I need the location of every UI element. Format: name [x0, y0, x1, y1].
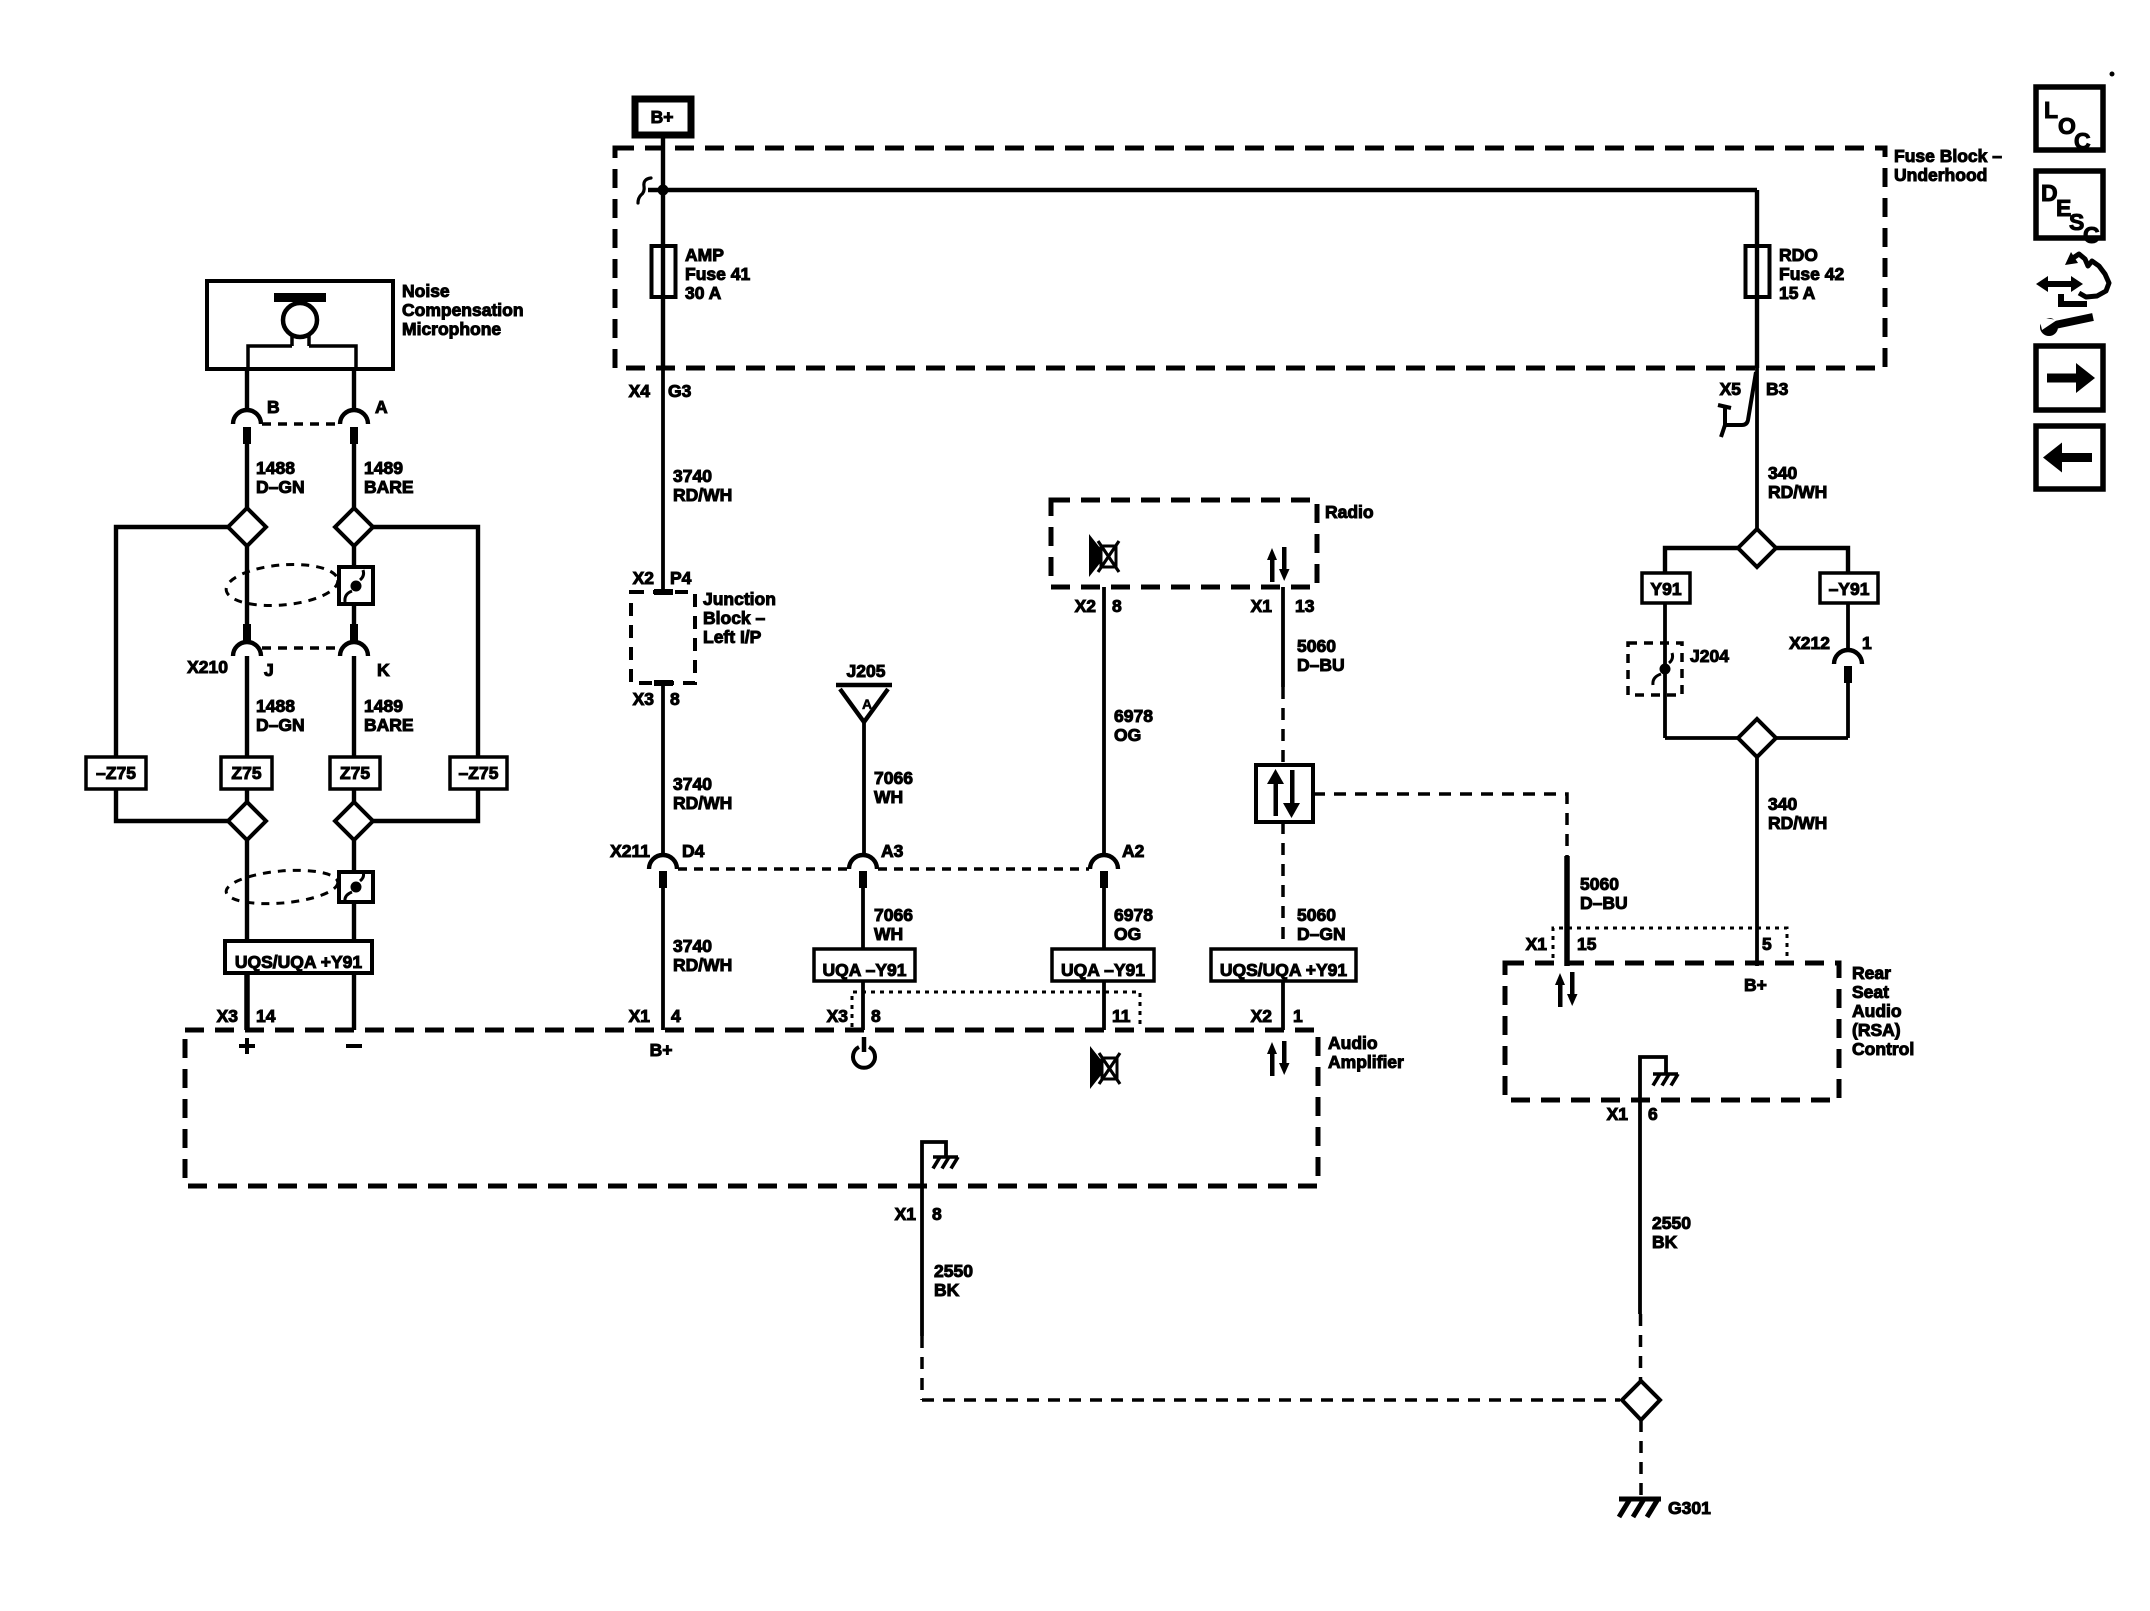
amp internal ground wire	[922, 1142, 946, 1186]
svg-text:Compensation: Compensation	[402, 300, 524, 320]
wire into amplifier pin 11	[1102, 981, 1106, 1030]
wire 7066 WH lower segment	[861, 887, 865, 949]
svg-text:1489: 1489	[364, 458, 403, 478]
option box UQS/UQA +Y91 (mic)	[225, 941, 372, 973]
splice diamond left lower	[228, 802, 266, 840]
svg-text:X1: X1	[1251, 596, 1273, 616]
svg-text:Junction: Junction	[703, 589, 776, 609]
A3 connector arc	[849, 855, 877, 869]
svg-text:RD/WH: RD/WH	[673, 485, 732, 505]
svg-text:Fuse Block –: Fuse Block –	[1894, 146, 2002, 166]
shield drain splice box upper	[339, 567, 373, 604]
twisted shield ellipse lower	[225, 866, 339, 908]
wire 5060 D-BU dashed segment	[1281, 687, 1285, 765]
amp data arrows pin icon	[1267, 1041, 1290, 1076]
svg-text:Audio: Audio	[1328, 1033, 1378, 1053]
svg-text:C: C	[2083, 222, 2100, 248]
svg-text:8: 8	[932, 1204, 942, 1224]
wire 2550 BK right dashed	[1639, 1314, 1643, 1381]
option box Y91	[1642, 573, 1690, 603]
svg-text:X212: X212	[1789, 633, 1830, 653]
ground splice diamond	[1622, 1381, 1660, 1420]
G301 ground symbol	[1619, 1499, 1661, 1517]
J204 splice dot	[1660, 664, 1671, 675]
dashed data link to RSA control	[1313, 794, 1567, 858]
svg-text:X3: X3	[633, 689, 655, 709]
wire Y91 branch down	[1663, 603, 1667, 738]
svg-text:RD/WH: RD/WH	[673, 955, 732, 975]
svg-text:K: K	[377, 660, 390, 680]
svg-text:7066: 7066	[874, 905, 913, 925]
svg-text:BK: BK	[1652, 1232, 1678, 1252]
wire 1488 D-GN lower	[245, 656, 249, 757]
wire into amplifier minus pin	[352, 973, 356, 1030]
amp internal ground symbol	[933, 1157, 958, 1169]
svg-text:1489: 1489	[364, 696, 403, 716]
A2 connector arc	[1090, 855, 1118, 869]
wire 340 RD/WH lower	[1755, 757, 1759, 963]
splice diamond right upper	[335, 508, 373, 546]
svg-text:D–GN: D–GN	[1297, 924, 1346, 944]
svg-text:–Z75: –Z75	[96, 763, 136, 783]
svg-text:3740: 3740	[673, 774, 712, 794]
svg-text:J204: J204	[1690, 646, 1729, 666]
terminal tick B	[243, 427, 251, 444]
svg-text:Microphone: Microphone	[402, 319, 501, 339]
back button	[2036, 426, 2103, 489]
wire 1488 to UQS box	[245, 840, 249, 941]
shield drain splice box lower	[339, 872, 373, 902]
svg-text:P4: P4	[670, 568, 692, 588]
svg-text:Seat: Seat	[1852, 982, 1889, 1002]
vehicle outline curved arrow	[2073, 254, 2109, 297]
svg-text:RD/WH: RD/WH	[1768, 482, 1827, 502]
svg-text:RD/WH: RD/WH	[673, 793, 732, 813]
svg-text:Fuse 42: Fuse 42	[1779, 264, 1844, 284]
fuse AMP Fuse 41	[652, 246, 676, 297]
terminal tick J	[243, 624, 251, 641]
svg-text:6978: 6978	[1114, 905, 1153, 925]
svg-text:L: L	[2044, 97, 2058, 123]
wires below option boxes	[116, 789, 478, 821]
svg-text:Fuse 41: Fuse 41	[685, 264, 750, 284]
svg-text:X2: X2	[1251, 1006, 1273, 1026]
wire 1489 BARE upper	[352, 443, 356, 508]
wire 1489 BARE lower	[352, 656, 356, 757]
junction block top terminal tick	[654, 589, 673, 595]
svg-text:B+: B+	[650, 1040, 673, 1060]
svg-text:340: 340	[1768, 463, 1797, 483]
svg-text:15 A: 15 A	[1779, 283, 1816, 303]
svg-text:2550: 2550	[1652, 1213, 1691, 1233]
svg-text:14: 14	[256, 1006, 276, 1026]
RSA internal ground wire	[1640, 1057, 1666, 1100]
svg-text:A3: A3	[881, 841, 904, 861]
svg-text:Z75: Z75	[231, 763, 261, 783]
svg-text:UQA –Y91: UQA –Y91	[823, 960, 907, 980]
splice diamond Y91 bottom	[1738, 719, 1776, 757]
svg-text:A: A	[862, 696, 872, 712]
svg-text:A2: A2	[1122, 841, 1145, 861]
wire -Y91 branch down	[1846, 603, 1850, 651]
svg-text:UQS/UQA +Y91: UQS/UQA +Y91	[235, 952, 363, 972]
X211 terminal tick	[659, 871, 667, 888]
svg-text:1488: 1488	[256, 696, 295, 716]
next button	[2036, 346, 2103, 410]
svg-text:1: 1	[1862, 633, 1872, 653]
radio muted speaker icon	[1089, 534, 1119, 577]
svg-text:3740: 3740	[673, 936, 712, 956]
option box UQA -Y91 (left)	[814, 949, 915, 981]
inline connector dashed link A3 to A2	[878, 867, 1089, 871]
option box -Z75 far right	[450, 757, 507, 789]
svg-text:UQA –Y91: UQA –Y91	[1061, 960, 1145, 980]
wire 2550 BK left solid	[920, 1186, 924, 1336]
wire into amplifier pin 8	[861, 981, 865, 1030]
wire 3740 RD/WH mid segment	[661, 683, 665, 856]
antenna lead wire 7066 WH	[862, 721, 866, 856]
svg-text:C: C	[2074, 128, 2091, 154]
audio amplifier dashed box	[185, 1030, 1318, 1186]
svg-text:8: 8	[670, 689, 680, 709]
svg-text:AMP: AMP	[685, 245, 724, 265]
splice hook terminal at bus left end	[638, 178, 651, 203]
svg-text:Rear: Rear	[1852, 963, 1891, 983]
svg-text:11: 11	[1112, 1006, 1131, 1026]
svg-text:30 A: 30 A	[685, 283, 722, 303]
svg-text:Audio: Audio	[1852, 1001, 1902, 1021]
svg-text:5: 5	[1762, 934, 1772, 954]
svg-text:OG: OG	[1114, 924, 1141, 944]
svg-text:X3: X3	[827, 1006, 849, 1026]
X5 B3 pass-through connector clip	[1718, 372, 1756, 437]
wire 6978 OG upper segment	[1102, 587, 1106, 856]
wire 6978 OG lower segment	[1102, 887, 1106, 949]
svg-text:J: J	[264, 660, 274, 680]
wire 2550 BK left dashed	[922, 1336, 1620, 1400]
X3 connector dotted outline	[852, 992, 1140, 1027]
svg-text:4: 4	[671, 1006, 681, 1026]
serial data link connector box	[1256, 765, 1313, 822]
shield branch wires outer	[116, 527, 478, 757]
svg-text:G3: G3	[668, 381, 692, 401]
svg-text:WH: WH	[874, 924, 903, 944]
svg-text:1: 1	[1293, 1006, 1303, 1026]
amp power-on pin symbol	[853, 1047, 875, 1068]
RSA data arrows pin icon	[1555, 972, 1578, 1007]
svg-text:BARE: BARE	[364, 715, 414, 735]
wire 2550 BK right solid	[1638, 1100, 1642, 1314]
wire 1489 through shield	[352, 546, 356, 625]
svg-text:X1: X1	[1607, 1104, 1629, 1124]
svg-text:Block –: Block –	[703, 608, 766, 628]
svg-text:X211: X211	[610, 841, 650, 861]
svg-text:D–BU: D–BU	[1297, 655, 1345, 675]
svg-text:X1: X1	[1526, 934, 1548, 954]
inline connector dashed link X211 to A3	[678, 867, 848, 871]
wire 3740 RD/WH lower segment	[661, 887, 665, 1030]
svg-text:G301: G301	[1668, 1498, 1711, 1518]
twisted shield ellipse upper	[224, 560, 339, 610]
X210 K connector arc	[340, 642, 368, 656]
amp pin minus symbol	[346, 1044, 362, 1048]
svg-text:RD/WH: RD/WH	[1768, 813, 1827, 833]
terminal tick K	[350, 624, 358, 641]
svg-text:13: 13	[1295, 596, 1315, 616]
svg-text:WH: WH	[874, 787, 903, 807]
svg-text:2550: 2550	[934, 1261, 973, 1281]
svg-text:B+: B+	[651, 107, 674, 127]
svg-text:8: 8	[871, 1006, 881, 1026]
svg-text:J205: J205	[847, 661, 886, 681]
connector B arc	[233, 410, 261, 424]
svg-text:BARE: BARE	[364, 477, 414, 497]
svg-text:–Y91: –Y91	[1829, 579, 1870, 599]
svg-text:X210: X210	[187, 657, 228, 677]
radio data arrows icon	[1267, 547, 1290, 582]
svg-text:X5: X5	[1720, 379, 1742, 399]
svg-text:Underhood: Underhood	[1894, 165, 1987, 185]
svg-text:Noise: Noise	[402, 281, 450, 301]
svg-text:X1: X1	[895, 1204, 917, 1224]
connector dashed link B-A	[262, 422, 339, 426]
svg-text:–Z75: –Z75	[459, 763, 499, 783]
rear seat audio control dashed box	[1505, 963, 1839, 1100]
wire 340 into RSA pin 5	[1755, 963, 1759, 966]
svg-text:Radio: Radio	[1325, 502, 1374, 522]
svg-text:X2: X2	[633, 568, 655, 588]
desc button	[2036, 171, 2103, 238]
option box UQA -Y91 (middle)	[1052, 949, 1154, 981]
data link arrows	[1267, 769, 1284, 784]
X212 terminal tick	[1844, 666, 1852, 683]
wire 1488 through shield	[245, 546, 249, 625]
wire 1489 to UQS box	[352, 840, 356, 941]
svg-text:UQS/UQA +Y91: UQS/UQA +Y91	[1220, 960, 1348, 980]
option box Z75 left	[221, 757, 272, 789]
splice diamond right lower	[335, 802, 373, 840]
J204 splice dashed box	[1628, 643, 1682, 695]
svg-text:8: 8	[1112, 596, 1122, 616]
vehicle data double arrow	[2044, 281, 2075, 287]
wire 340 RD/WH upper	[1755, 368, 1759, 529]
A2 terminal tick	[1100, 871, 1108, 888]
svg-text:X3: X3	[217, 1006, 239, 1026]
dashed wire to G301	[1639, 1420, 1643, 1496]
svg-text:Y91: Y91	[1650, 579, 1681, 599]
X210 J connector arc	[233, 642, 261, 656]
svg-text:B: B	[267, 397, 280, 417]
stray mark dot	[2110, 72, 2115, 77]
svg-text:D–GN: D–GN	[256, 477, 305, 497]
splice diamond left upper	[228, 508, 266, 546]
svg-text:X2: X2	[1075, 596, 1097, 616]
svg-text:(RSA): (RSA)	[1852, 1020, 1901, 1040]
option box -Z75 far left	[86, 757, 146, 789]
svg-text:6978: 6978	[1114, 706, 1153, 726]
loc button	[2036, 87, 2103, 150]
svg-text:Amplifier: Amplifier	[1328, 1052, 1404, 1072]
X211 D4 connector arc	[649, 855, 677, 869]
option box -Y91	[1820, 573, 1878, 603]
svg-text:340: 340	[1768, 794, 1797, 814]
radio dashed box	[1051, 500, 1317, 587]
svg-text:Z75: Z75	[340, 763, 370, 783]
svg-text:B+: B+	[1744, 975, 1767, 995]
svg-text:5060: 5060	[1580, 874, 1619, 894]
svg-text:15: 15	[1577, 934, 1597, 954]
branch wires to Y91 options	[1665, 548, 1848, 573]
svg-text:A: A	[375, 397, 388, 417]
wire 3740 RD/WH upper segment	[661, 368, 665, 592]
wire 5060 D-GN dashed segment	[1281, 822, 1285, 941]
svg-text:D–BU: D–BU	[1580, 893, 1628, 913]
svg-text:X4: X4	[629, 381, 651, 401]
wire 1488 D-GN upper	[245, 443, 249, 508]
fuse block underhood dashed box	[615, 148, 1885, 368]
option box Z75 right	[330, 757, 380, 789]
junction block bottom terminal tick	[654, 680, 673, 686]
svg-text:X1: X1	[629, 1006, 651, 1026]
svg-text:OG: OG	[1114, 725, 1141, 745]
X1 connector dotted outline (RSA)	[1553, 928, 1787, 958]
wire 5060 D-BU into RSA	[1564, 856, 1570, 966]
svg-text:3740: 3740	[673, 466, 712, 486]
amp muted speaker pin icon	[1090, 1046, 1120, 1089]
J205 antenna symbol	[836, 685, 892, 722]
wire 5060 D-BU solid segment	[1281, 587, 1285, 687]
svg-text:1488: 1488	[256, 458, 295, 478]
svg-text:BK: BK	[934, 1280, 960, 1300]
junction node dot	[658, 185, 669, 196]
svg-text:5060: 5060	[1297, 905, 1336, 925]
svg-text:D4: D4	[682, 841, 705, 861]
svg-text:B3: B3	[1766, 379, 1789, 399]
junction block left I/P dashed box	[631, 592, 695, 683]
wire into amplifier pin 14	[244, 973, 250, 1030]
fuse RDO Fuse 42	[1746, 246, 1770, 297]
B+ battery feed box	[635, 99, 691, 135]
svg-text:D–GN: D–GN	[256, 715, 305, 735]
wire B+ feed down through fuse 41	[661, 136, 665, 368]
svg-text:RDO: RDO	[1779, 245, 1818, 265]
wires to lower diamond	[1665, 682, 1848, 738]
A3 terminal tick	[859, 871, 867, 888]
svg-text:7066: 7066	[874, 768, 913, 788]
svg-text:Left I/P: Left I/P	[703, 627, 762, 647]
noise compensation microphone box	[207, 281, 393, 369]
svg-text:6: 6	[1648, 1104, 1658, 1124]
X212 connector arc	[1834, 650, 1862, 664]
wire into amplifier pin 1	[1281, 981, 1285, 1030]
svg-text:5060: 5060	[1297, 636, 1336, 656]
option box UQS/UQA +Y91 (right)	[1211, 949, 1356, 981]
RSA internal ground symbol	[1653, 1074, 1678, 1086]
microphone symbol	[274, 293, 326, 302]
microphone lead wires	[247, 369, 354, 411]
terminal tick A	[350, 427, 358, 444]
main B+ bus wire	[648, 190, 1757, 368]
splice diamond Y91 top	[1738, 529, 1776, 567]
amp pin plus symbol	[239, 1038, 255, 1054]
wrench icon	[2055, 317, 2093, 325]
connector A arc	[340, 410, 368, 424]
svg-text:Control: Control	[1852, 1039, 1914, 1059]
connector dashed link J-K	[262, 646, 339, 650]
